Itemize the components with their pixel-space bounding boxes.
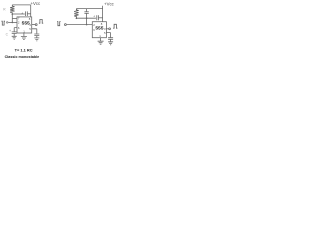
pin 1 right box: [99, 34, 101, 38]
op-amp U2 555 box: [92, 22, 106, 38]
pin 5: [29, 27, 31, 31]
svg-text:R: R: [3, 8, 6, 12]
pin 8 right box: [101, 22, 103, 26]
wire R2 bottom to C4: [76, 17, 96, 19]
node R2 bottom junction: [76, 18, 78, 20]
ground under C6: [108, 42, 113, 45]
wire output stub right circuit: [106, 28, 108, 30]
wire top rail right: [76, 8, 102, 10]
node junction C5/R2 wire: [86, 17, 88, 19]
svg-text:+Vcc: +Vcc: [104, 2, 115, 7]
pin 2 right box: [93, 23, 95, 27]
pin 2: [18, 21, 20, 25]
resistor R2: [74, 9, 78, 19]
wire C1 to Vcc drop: [27, 13, 30, 15]
op-amp U1 555 box: [17, 17, 32, 33]
wire pin7 stub: [12, 17, 17, 19]
svg-text:T= 1.1 RC: T= 1.1 RC: [15, 48, 33, 53]
pin 3 right box: [104, 27, 106, 31]
node output pulse glyph left: [39, 20, 43, 24]
node input terminal right: [65, 24, 67, 26]
wire C4 to Vcc drop: [99, 17, 103, 19]
wire node A to C1: [12, 13, 24, 15]
capacitor C1: [26, 11, 28, 16]
svg-text:555: 555: [95, 25, 103, 31]
wire Vcc drop left: [30, 5, 32, 17]
wire C3 to ground: [36, 36, 38, 38]
wire Vcc drop right: [102, 6, 104, 22]
pin 7: [18, 17, 20, 21]
resistor R1: [10, 5, 14, 14]
node junction trigger right: [86, 24, 88, 26]
pin 3: [29, 23, 31, 27]
wire C6 to ground: [110, 39, 112, 41]
svg-text:+: +: [93, 15, 95, 19]
svg-text:Classic monostable: Classic monostable: [5, 55, 40, 59]
capacitor C1 plus: [21, 11, 23, 15]
node trigger pulse glyph right: [57, 22, 61, 26]
svg-text:C: C: [6, 33, 9, 37]
ground under C2: [12, 36, 17, 39]
wire trigger input right: [67, 24, 93, 26]
pin 5 right box: [104, 31, 106, 35]
node +Vcc label (right): [104, 2, 115, 7]
ground under C3: [34, 38, 39, 41]
pin 6 right box: [93, 28, 95, 32]
ground pin1 left: [21, 37, 27, 40]
wire node A down: [11, 14, 13, 22]
capacitor C3: [34, 34, 39, 36]
caption title: [5, 55, 40, 59]
wire pin5 stub to C3: [32, 29, 37, 34]
wire top rail left: [12, 4, 30, 6]
capacitor C5 in drop wire: [84, 9, 88, 25]
node A junction: [12, 13, 14, 15]
svg-text:+: +: [21, 11, 23, 15]
pin 1: [23, 29, 25, 33]
node +Vcc label (left): [30, 1, 41, 6]
caption formula: [15, 48, 33, 53]
node input terminal left: [6, 22, 8, 24]
svg-text:+: +: [9, 29, 11, 33]
ground pin1 right: [98, 41, 104, 44]
capacitor C6: [108, 38, 113, 40]
capacitor C4: [97, 15, 99, 20]
pin 6: [18, 26, 20, 30]
node output pulse glyph right: [113, 24, 117, 28]
wire pin1 ground drop right: [100, 38, 102, 41]
node trigger junction: [12, 22, 14, 24]
capacitor C2 label C: [6, 33, 9, 37]
svg-text:+Vcc: +Vcc: [30, 1, 41, 6]
capacitor C4 plus: [93, 15, 95, 19]
node trigger pulse glyph left: [1, 21, 5, 25]
pin 8: [29, 17, 31, 21]
wire pin5 stub to C6: [106, 33, 110, 38]
capacitor C2 plus: [9, 29, 11, 33]
resistor R1 label R: [3, 8, 6, 12]
wire output stub left circuit: [32, 24, 36, 26]
wire pin1 ground drop: [23, 33, 25, 36]
wire C2 to ground: [13, 34, 15, 37]
node output terminal right: [109, 28, 111, 30]
capacitor C2: [12, 32, 17, 34]
wire trigger input left: [8, 21, 17, 23]
wire pin6 stub to C2: [14, 28, 17, 32]
node output terminal left: [35, 24, 37, 26]
